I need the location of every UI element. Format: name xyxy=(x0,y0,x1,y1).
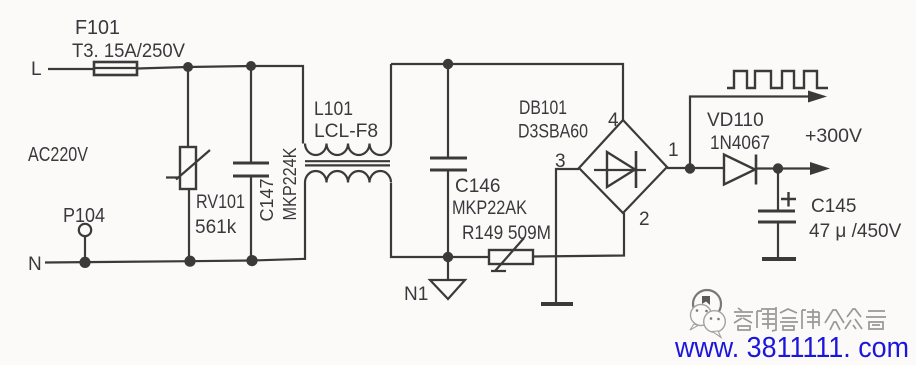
svg-text:C146: C146 xyxy=(455,176,500,197)
varistor RV101 xyxy=(166,68,210,262)
svg-text:LCL-F8: LCL-F8 xyxy=(314,121,378,142)
svg-text:L: L xyxy=(31,59,42,80)
junction dot pin1 node xyxy=(685,163,695,173)
svg-text:T3. 15A/250V: T3. 15A/250V xyxy=(72,41,185,62)
bridge rectifier DB101 xyxy=(579,120,667,213)
svg-text:4: 4 xyxy=(608,110,619,131)
svg-text:+300V: +300V xyxy=(805,126,862,147)
capacitor C146 xyxy=(430,64,467,257)
junction dot at C147 top xyxy=(246,61,256,71)
junction dot at fuse/RV101 xyxy=(183,62,193,72)
junction dot C145 top xyxy=(773,163,783,173)
junction dot P104/N xyxy=(79,257,90,268)
svg-text:R149 509M: R149 509M xyxy=(462,223,551,244)
junction dot C146 top xyxy=(443,59,453,69)
ground chassis bar xyxy=(541,302,573,306)
wire L input lead xyxy=(48,68,94,70)
terminal P104 xyxy=(79,224,91,262)
waveform pointer arrow xyxy=(690,91,827,169)
wire top rail 2 from L101 to bridge xyxy=(391,64,623,120)
svg-text:47 μ /450V: 47 μ /450V xyxy=(809,221,902,242)
svg-text:AC220V: AC220V xyxy=(28,144,89,166)
junction dot C147 bottom xyxy=(246,255,257,266)
watermark text (stylized hanzi strokes) xyxy=(734,307,886,331)
svg-text:MKP22AK: MKP22AK xyxy=(452,198,527,219)
svg-text:L101: L101 xyxy=(314,99,353,120)
waveform square wave xyxy=(727,71,828,88)
wire N rail xyxy=(45,259,306,263)
wire L101 bottom to R149 xyxy=(391,183,489,257)
wire top rail from fuse to L101 xyxy=(137,66,303,144)
fuse F101 xyxy=(94,62,137,75)
svg-text:561k: 561k xyxy=(195,217,237,238)
watermark logo xyxy=(690,290,725,338)
svg-text:N: N xyxy=(28,254,42,275)
svg-text:www. 3811111. com: www. 3811111. com xyxy=(674,332,909,360)
svg-text:D3SBA60: D3SBA60 xyxy=(518,122,588,143)
svg-text:2: 2 xyxy=(639,209,650,230)
junction dot N1 node xyxy=(443,252,453,262)
ground N1 xyxy=(430,257,465,299)
resistor R149 (fusible/varistor style) xyxy=(489,238,533,271)
choke L101 xyxy=(305,64,391,260)
junction dot RV101 bottom xyxy=(184,256,195,267)
wire bridge pin3 to chassis ground xyxy=(556,169,579,302)
ground at C145 xyxy=(762,257,796,261)
svg-text:P104: P104 xyxy=(63,205,105,227)
svg-text:DB101: DB101 xyxy=(519,98,567,119)
diode VD110 xyxy=(724,155,778,185)
capacitor C145 (electrolytic) xyxy=(758,169,796,259)
capacitor C147 xyxy=(233,66,269,261)
svg-text:C147: C147 xyxy=(257,179,277,222)
svg-text:C145: C145 xyxy=(811,196,856,217)
svg-text:F101: F101 xyxy=(75,17,120,39)
svg-text:VD110: VD110 xyxy=(707,110,764,131)
node +300V output arrow xyxy=(778,162,830,175)
svg-text:N1: N1 xyxy=(404,284,428,305)
svg-text:RV101: RV101 xyxy=(196,192,245,213)
svg-text:1N4067: 1N4067 xyxy=(710,133,770,154)
wire bridge pin1 to VD110 xyxy=(667,167,724,169)
svg-text:MKP224K: MKP224K xyxy=(280,148,300,221)
svg-text:1: 1 xyxy=(668,140,679,161)
wire R149 to bridge pin2 xyxy=(533,213,624,257)
